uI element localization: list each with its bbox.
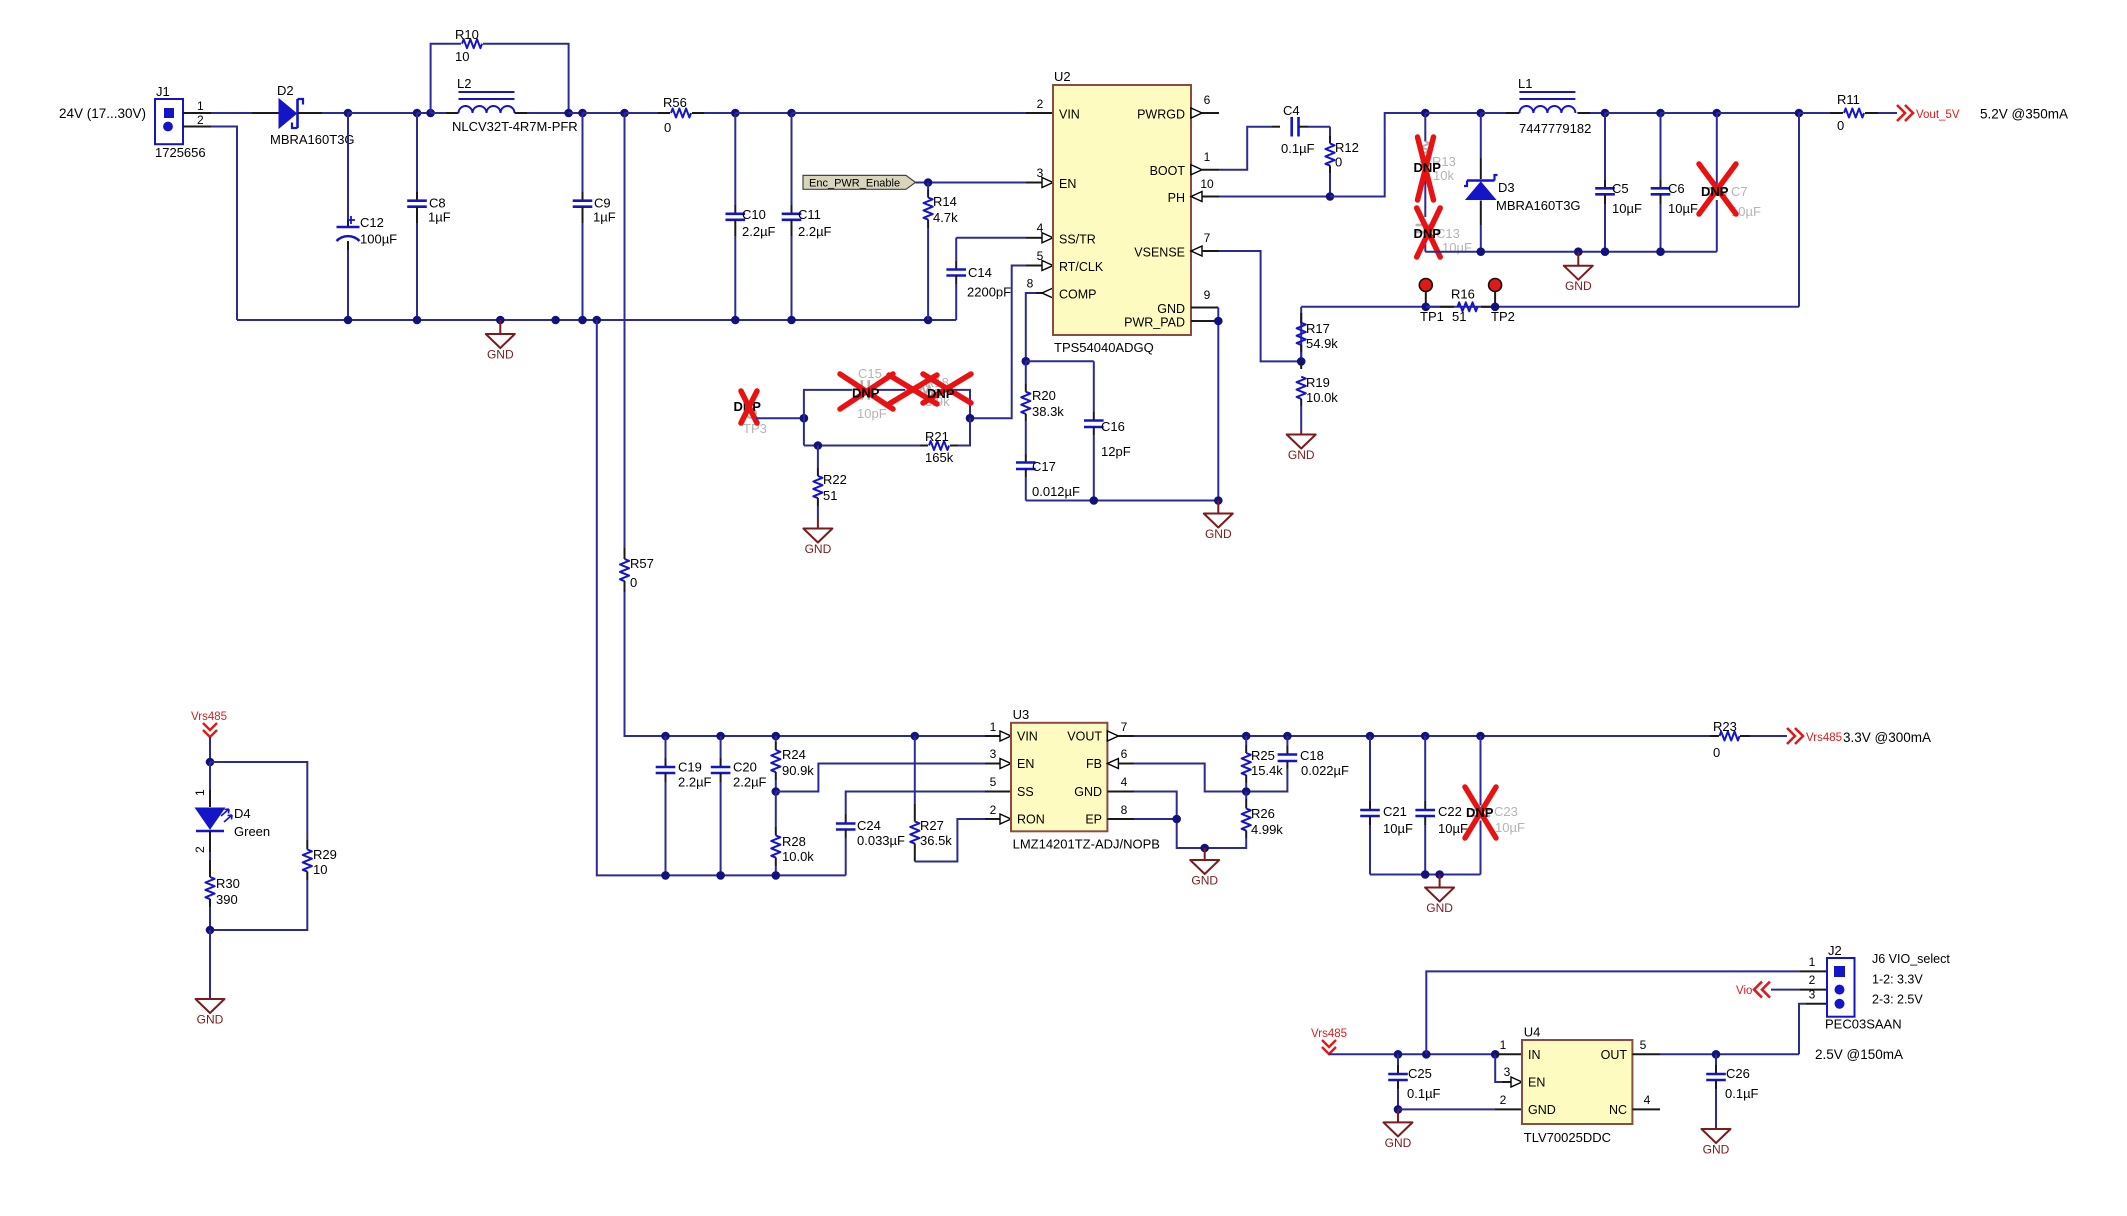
pin number U3-3 EN [990, 747, 997, 761]
capacitor C21 [1360, 736, 1413, 875]
svg-text:EN: EN [1059, 177, 1076, 191]
svg-text:GND: GND [1385, 1136, 1412, 1150]
svg-text:R57: R57 [630, 556, 654, 571]
capacitor C19 [656, 736, 712, 875]
svg-text:R21: R21 [925, 429, 949, 444]
svg-text:1: 1 [990, 720, 997, 734]
svg-text:DNP: DNP [927, 386, 955, 401]
pin number U2-3 EN [1037, 166, 1044, 180]
svg-text:2.2µF: 2.2µF [733, 775, 767, 790]
annotation 2.5V output [1815, 1047, 1903, 1062]
inductor L1 [1506, 76, 1591, 136]
svg-text:R19: R19 [1306, 375, 1330, 390]
svg-text:165k: 165k [925, 450, 954, 465]
svg-text:C21: C21 [1383, 804, 1407, 819]
svg-text:10: 10 [1200, 177, 1214, 191]
junction VOUT rail at C18 [1283, 732, 1292, 741]
svg-text:PWR_PAD: PWR_PAD [1124, 316, 1185, 330]
svg-text:GND: GND [805, 542, 832, 556]
svg-text:0: 0 [664, 120, 671, 135]
svg-text:C16: C16 [1101, 419, 1125, 434]
resistor R13 DNP [1421, 113, 1456, 205]
svg-text:GND: GND [1426, 901, 1453, 915]
junction EP node [1172, 815, 1181, 824]
svg-text:EP: EP [1085, 813, 1102, 827]
regulator U3 LMZ14201 body [1011, 707, 1160, 852]
wire C21 C22 C23 ground rail [1370, 874, 1481, 876]
junction ground bus at R14 [924, 316, 933, 325]
junction LED top node [206, 758, 215, 767]
svg-text:10.0k: 10.0k [1306, 390, 1338, 405]
pin arrow U3 RON [1000, 814, 1011, 824]
resistor R29 [210, 840, 337, 930]
svg-text:6: 6 [1204, 93, 1211, 107]
pin number U2-8 COMP [1027, 277, 1034, 291]
wire switch rail D3 to L1 [1481, 112, 1506, 114]
wire PH node up to output rail [1330, 113, 1425, 197]
pin arrow U2 COMP [1042, 288, 1053, 298]
svg-text:C7: C7 [1731, 184, 1748, 199]
svg-text:2.2µF: 2.2µF [798, 224, 832, 239]
wire U2 RT/CLK to compensation net [970, 266, 1042, 419]
svg-text:2.5V @150mA: 2.5V @150mA [1815, 1047, 1903, 1062]
svg-text:0.022µF: 0.022µF [1301, 763, 1349, 778]
junction comp rail at PWR_PAD column [1214, 496, 1223, 505]
svg-text:6: 6 [1121, 747, 1128, 761]
port Vout_5V [1897, 105, 1960, 121]
junction cap gnd rail at C22 [1421, 870, 1430, 879]
junction TP2 [1491, 303, 1500, 312]
junction U3 rail at C20 [716, 732, 725, 741]
wire C12 node to C8 node [348, 112, 417, 114]
svg-text:3: 3 [990, 747, 997, 761]
svg-text:VIN: VIN [1059, 108, 1080, 122]
svg-text:C15: C15 [858, 366, 882, 381]
pin number U4-1 IN [1500, 1038, 1507, 1052]
junction R14 top [924, 178, 933, 187]
svg-text:GND: GND [1074, 785, 1102, 799]
svg-text:C26: C26 [1726, 1066, 1750, 1081]
svg-text:C12: C12 [360, 215, 384, 230]
svg-text:U2: U2 [1054, 69, 1071, 84]
junction output rail at C6 [1656, 109, 1665, 118]
svg-text:3: 3 [1504, 1065, 1511, 1079]
svg-text:8: 8 [1121, 803, 1128, 817]
pin number J1-1 [197, 99, 204, 113]
ground symbol LED [196, 997, 225, 1027]
svg-text:10µF: 10µF [1612, 201, 1642, 216]
svg-text:0.1µF: 0.1µF [1407, 1086, 1441, 1101]
resistor R57 [620, 113, 654, 736]
svg-text:2: 2 [193, 846, 207, 853]
pin U4 NC stub [1632, 1093, 1660, 1109]
svg-text:10µF: 10µF [1442, 240, 1472, 255]
svg-text:C22: C22 [1438, 804, 1462, 819]
pin number D4-2 [193, 846, 207, 853]
svg-text:C14: C14 [968, 265, 992, 280]
svg-text:4: 4 [1121, 775, 1128, 789]
svg-text:GND: GND [1157, 302, 1185, 316]
svg-text:NC: NC [1609, 1103, 1627, 1117]
svg-text:L1: L1 [1518, 76, 1532, 91]
svg-text:FB: FB [1086, 757, 1102, 771]
resistor R23 [1710, 719, 1787, 760]
wire LED node to ground [209, 930, 211, 997]
annotation 3.3V output [1843, 730, 1931, 745]
wire ground bus drop to U3 section [597, 320, 666, 875]
junction lower rail at GND [1574, 247, 1583, 256]
junction PWR_PAD [1214, 317, 1223, 326]
svg-text:0.1µF: 0.1µF [1281, 141, 1315, 156]
svg-text:10: 10 [455, 49, 469, 64]
svg-text:J6 VIO_select: J6 VIO_select [1872, 952, 1950, 966]
junction TP1 [1422, 303, 1431, 312]
junction L2 left node [426, 109, 435, 118]
svg-text:DNP: DNP [1414, 160, 1442, 175]
svg-text:1: 1 [1204, 150, 1211, 164]
svg-text:R22: R22 [823, 472, 847, 487]
svg-text:0.1µF: 0.1µF [1725, 1086, 1759, 1101]
svg-text:R56: R56 [663, 95, 687, 110]
svg-text:COMP: COMP [1059, 288, 1097, 302]
svg-text:Vrs485: Vrs485 [191, 711, 227, 723]
junction switch rail at R13 [1421, 109, 1430, 118]
capacitor C13 DNP [1416, 205, 1472, 255]
pin number J1-2 [197, 113, 204, 127]
svg-text:0.033µF: 0.033µF [857, 833, 905, 848]
svg-text:C17: C17 [1032, 459, 1056, 474]
wire Vio to J2 pin2 [1771, 989, 1827, 991]
svg-text:100µF: 100µF [360, 232, 397, 247]
svg-text:RON: RON [1017, 813, 1045, 827]
wire R27 to U3 RON [915, 819, 1011, 862]
X mark C23 [1465, 787, 1496, 838]
ground symbol output caps [1425, 875, 1454, 916]
svg-text:51: 51 [823, 488, 837, 503]
wire U3 GND EP to ground [1134, 792, 1205, 849]
wire sense rail horizontal [1301, 307, 1799, 362]
wire U3 SS to C24 [846, 792, 1011, 815]
junction ground bus at C12 [344, 316, 353, 325]
junction comp rail at C16 [1090, 496, 1099, 505]
wire IN stub [1495, 1053, 1522, 1055]
junction ground bus at C9 [578, 316, 587, 325]
pin U3 VOUT stub [1107, 720, 1134, 741]
capacitor C18 [1246, 736, 1349, 792]
svg-text:R29: R29 [313, 847, 337, 862]
wire U3 FB to divider [1134, 764, 1246, 792]
svg-text:C8: C8 [429, 196, 446, 211]
X mark R18 [889, 374, 971, 404]
wire C10 node to C11 node [735, 112, 791, 114]
svg-text:5: 5 [1037, 249, 1044, 263]
wire BOOT to C4 [1219, 127, 1280, 170]
junction FB divider node [1242, 787, 1251, 796]
svg-text:10pF: 10pF [857, 406, 887, 421]
junction lower rail at C6 [1656, 247, 1665, 256]
pin U3 GND stub [1107, 775, 1134, 792]
svg-text:3: 3 [1037, 166, 1044, 180]
svg-text:DNP: DNP [1414, 226, 1442, 241]
capacitor C17 [1016, 454, 1080, 501]
junction R24 R28 node [772, 787, 781, 796]
svg-text:J2: J2 [1828, 943, 1842, 958]
X mark C13 [1417, 208, 1441, 257]
LED D4 [196, 762, 271, 852]
svg-text:2.2µF: 2.2µF [742, 224, 776, 239]
port Vio [1736, 982, 1770, 998]
svg-text:C25: C25 [1408, 1066, 1432, 1081]
svg-text:10µF: 10µF [1495, 820, 1525, 835]
svg-text:1µF: 1µF [428, 210, 451, 225]
junction C12 node [344, 109, 353, 118]
wire Vrs485 to C25 rail [1329, 1053, 1495, 1055]
svg-text:GND: GND [1288, 448, 1315, 462]
svg-text:R30: R30 [216, 876, 240, 891]
label DNP for R13 [1414, 160, 1442, 175]
svg-text:DNP: DNP [1701, 184, 1729, 199]
label DNP for C23 [1466, 805, 1494, 820]
op-amp U2 TPS54040ADGQ body [1053, 69, 1191, 355]
capacitor C20 [711, 736, 767, 875]
pin U2 GND stub [1191, 288, 1218, 308]
wire R57 node to R56 [625, 112, 659, 114]
svg-text:EN: EN [1017, 757, 1034, 771]
wire COMP node to C16 [1026, 360, 1094, 362]
capacitor C10 [726, 113, 776, 320]
junction ground bus at C11 [787, 316, 796, 325]
svg-text:2: 2 [1037, 97, 1044, 111]
junction U3 rail at R27 [911, 732, 920, 741]
junction ground bus at C8 [413, 316, 422, 325]
svg-text:R12: R12 [1335, 140, 1359, 155]
junction U4 rail at IN [1491, 1050, 1500, 1059]
wire sense rail vertical from output [1798, 113, 1800, 307]
svg-text:0: 0 [1335, 155, 1342, 170]
wire C25 to U4 GND [1398, 1108, 1522, 1110]
svg-text:2-3: 2.5V: 2-3: 2.5V [1872, 993, 1923, 1007]
net label Enc_PWR_Enable [803, 175, 916, 189]
wire J2 pin1 branch [1426, 971, 1827, 1054]
svg-text:9: 9 [1204, 288, 1211, 302]
svg-text:C9: C9 [594, 196, 611, 211]
capacitor C23 DNP [1471, 736, 1525, 875]
pin U2 PWR_PAD stub [1191, 320, 1218, 322]
svg-text:NLCV32T-4R7M-PFR: NLCV32T-4R7M-PFR [452, 119, 578, 134]
X mark R13 [1418, 137, 1434, 200]
pin arrow U2 RT/CLK [1042, 261, 1053, 271]
svg-text:R27: R27 [920, 818, 944, 833]
svg-text:Green: Green [234, 824, 270, 839]
svg-text:10µF: 10µF [1383, 821, 1413, 836]
junction RT network left [800, 414, 809, 423]
svg-text:R17: R17 [1306, 321, 1330, 336]
ground symbol U2 power pad [1204, 501, 1233, 542]
ground symbol below R22 [803, 517, 832, 557]
svg-text:TLV70025DDC: TLV70025DDC [1524, 1130, 1611, 1145]
svg-text:10: 10 [313, 862, 327, 877]
junction C26 node [1712, 1050, 1721, 1059]
pin number U3-1 VIN [990, 720, 997, 734]
junction R22 tap [814, 441, 823, 450]
svg-text:PH: PH [1168, 191, 1185, 205]
svg-text:Enc_PWR_Enable: Enc_PWR_Enable [809, 177, 900, 189]
wire ground bus top section [237, 319, 956, 321]
svg-text:1-2: 3.3V: 1-2: 3.3V [1872, 973, 1923, 987]
resistor R19 [1297, 361, 1339, 430]
pin U2 PWRGD stub [1191, 93, 1219, 118]
junction C9 node [578, 109, 587, 118]
junction ground bus at C10 [731, 316, 740, 325]
capacitor C8 [407, 113, 451, 320]
pin number U3-5 SS [990, 775, 997, 789]
svg-text:2.2µF: 2.2µF [678, 775, 712, 790]
capacitor C16 [1084, 361, 1131, 500]
junction C25 bottom [1394, 1105, 1403, 1114]
pin number D4-1 [193, 789, 207, 796]
wire PH to switch node [1219, 196, 1330, 198]
junction VOUT rail at C22 [1421, 732, 1430, 741]
connector J2 [1825, 943, 1902, 1032]
junction U3 gnd rail at C20 [716, 871, 725, 880]
svg-text:90.9k: 90.9k [782, 763, 814, 778]
svg-text:C4: C4 [1283, 103, 1300, 118]
svg-text:Vrs485: Vrs485 [1311, 1028, 1347, 1040]
pin arrow U2 SS/TR [1042, 233, 1053, 243]
svg-text:2: 2 [1809, 973, 1816, 987]
pin number U2-4 SS/TR [1037, 221, 1044, 235]
svg-text:R28: R28 [782, 834, 806, 849]
svg-text:5: 5 [990, 775, 997, 789]
wire U3 section ground rail [666, 874, 846, 876]
wire C5 node to C6 node [1605, 112, 1661, 114]
svg-text:RT/CLK: RT/CLK [1059, 260, 1104, 274]
capacitor C14 [946, 238, 1011, 320]
wire switch rail R13 to D3 [1425, 112, 1481, 114]
resistor R24 [771, 736, 814, 792]
resistor R22 [813, 446, 847, 517]
svg-text:VIN: VIN [1017, 730, 1038, 744]
test point TP3 DNP [734, 399, 767, 436]
svg-text:1: 1 [1809, 955, 1816, 969]
svg-text:SS: SS [1017, 785, 1034, 799]
capacitor C25 [1388, 1054, 1440, 1109]
svg-text:0.012µF: 0.012µF [1032, 484, 1080, 499]
svg-text:10µF: 10µF [1438, 821, 1468, 836]
svg-text:GND: GND [1565, 279, 1592, 293]
junction LED bottom node [206, 926, 215, 935]
wire L2 to C9 node [569, 112, 583, 114]
svg-text:3.3V @300mA: 3.3V @300mA [1843, 730, 1931, 745]
ground symbol below R19 [1287, 431, 1316, 463]
junction lower rail at C5 [1601, 247, 1610, 256]
junction L2 right node [564, 109, 573, 118]
label DNP for C13 [1414, 226, 1442, 241]
pin U2 BOOT stub [1191, 150, 1219, 175]
junction U4 rail at C25 [1394, 1050, 1403, 1059]
resistor R26 [1205, 792, 1251, 849]
svg-text:R20: R20 [1032, 388, 1056, 403]
wire U2 COMP to R20 node [1026, 293, 1042, 361]
svg-text:BOOT: BOOT [1150, 164, 1186, 178]
wire C9 node to R57 node [583, 112, 625, 114]
junction RT network right [966, 414, 975, 423]
svg-text:GND: GND [1205, 527, 1232, 541]
resistor R18 DNP [905, 375, 950, 409]
svg-text:GND: GND [197, 1013, 224, 1027]
svg-text:8: 8 [1027, 277, 1034, 291]
svg-text:10.0k: 10.0k [782, 849, 814, 864]
svg-text:36.5k: 36.5k [920, 833, 952, 848]
svg-text:TP2: TP2 [1491, 309, 1515, 324]
capacitor C26 [1706, 1054, 1758, 1127]
junction C10 node [731, 109, 740, 118]
svg-text:R24: R24 [782, 747, 806, 762]
svg-text:VSENSE: VSENSE [1134, 246, 1185, 260]
svg-text:C11: C11 [798, 207, 821, 222]
svg-text:4.7k: 4.7k [933, 210, 958, 225]
capacitor C12 polarized [337, 113, 398, 320]
svg-text:1725656: 1725656 [155, 145, 206, 160]
pin U3 EP stub [1107, 803, 1134, 819]
pin U4 OUT stub [1632, 1038, 1660, 1054]
junction R57 tap node [620, 109, 629, 118]
resistor R16 [1426, 287, 1495, 325]
capacitor C7 DNP [1707, 113, 1761, 252]
label DNP for R18 [927, 386, 955, 401]
pin arrow U3 EN [1000, 759, 1011, 769]
svg-text:DNP: DNP [1466, 805, 1494, 820]
svg-text:0: 0 [1837, 118, 1844, 133]
junction U3 rail at C19 [661, 732, 670, 741]
svg-text:C6: C6 [1668, 181, 1685, 196]
junction VSENSE divider [1297, 357, 1306, 366]
svg-text:R23: R23 [1713, 719, 1737, 734]
pin number J2-1 [1809, 955, 1816, 969]
resistor R30 [205, 852, 239, 930]
wire L1 to C5 node [1590, 112, 1605, 114]
diode D3 [1464, 113, 1581, 252]
junction output rail at C5 [1601, 109, 1610, 118]
svg-text:10µF: 10µF [1668, 201, 1698, 216]
svg-text:LMZ14201TZ-ADJ/NOPB: LMZ14201TZ-ADJ/NOPB [1013, 837, 1160, 852]
wire U3 VOUT rail [1134, 735, 1710, 737]
capacitor C24 [836, 814, 905, 875]
junction C8 node [413, 109, 422, 118]
svg-text:MBRA160T3G: MBRA160T3G [270, 132, 355, 147]
svg-text:C5: C5 [1612, 181, 1629, 196]
wire Vrs485 to LED node [209, 737, 211, 762]
pin number U3-2 RON [990, 803, 997, 817]
svg-text:D4: D4 [234, 806, 251, 821]
pin U3 FB stub [1107, 747, 1134, 769]
power port Vrs485 LED [191, 711, 227, 737]
junction output rail sense tap [1795, 109, 1804, 118]
svg-text:R14: R14 [933, 194, 957, 209]
wire lower R21 branch [804, 418, 970, 445]
wire J1 pin2 to ground bus [183, 127, 237, 321]
svg-text:38.3k: 38.3k [1032, 404, 1064, 419]
wire U2 GND PWR_PAD down [1217, 308, 1219, 501]
svg-text:4.99k: 4.99k [1251, 822, 1283, 837]
svg-text:GND: GND [1703, 1143, 1730, 1157]
junction U4 rail at J2 branch [1422, 1050, 1431, 1059]
svg-text:MBRA160T3G: MBRA160T3G [1496, 198, 1581, 213]
wire VSENSE to divider [1219, 251, 1301, 361]
junction lower rail at D3 [1477, 247, 1486, 256]
capacitor C6 [1651, 113, 1698, 252]
junction ground bus stub [551, 316, 560, 325]
